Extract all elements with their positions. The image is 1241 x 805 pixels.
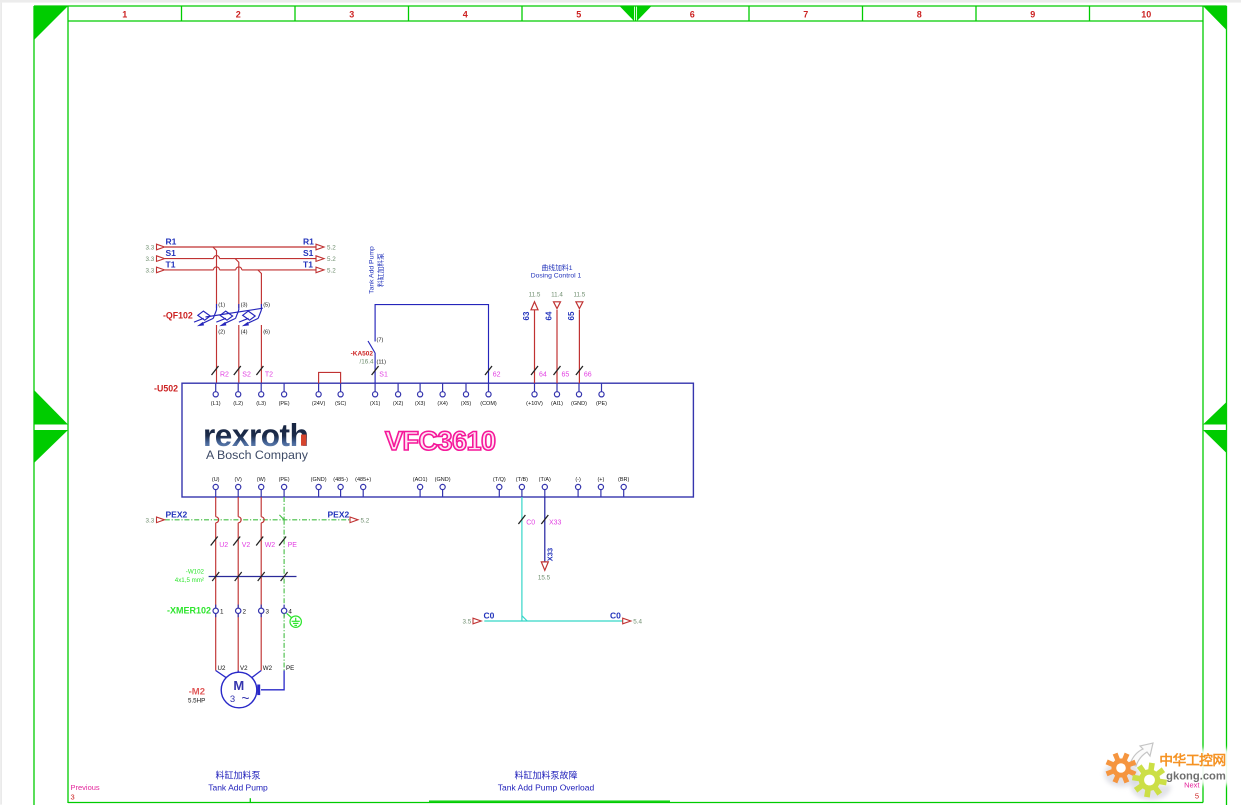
svg-text:(PE): (PE) xyxy=(279,401,290,407)
PE wire to motor (green) xyxy=(283,614,285,671)
svg-text:65: 65 xyxy=(567,311,576,320)
svg-text:W2: W2 xyxy=(263,665,273,672)
svg-text:S1: S1 xyxy=(166,248,177,258)
svg-text:S1: S1 xyxy=(303,248,314,258)
rexroth logo xyxy=(203,417,309,462)
svg-text:R1: R1 xyxy=(166,237,177,247)
svg-text:Dosing Control 1: Dosing Control 1 xyxy=(531,273,582,280)
svg-text:-U502: -U502 xyxy=(154,384,178,394)
svg-text:料缸加料泵: 料缸加料泵 xyxy=(215,770,260,781)
svg-text:(T/Q): (T/Q) xyxy=(493,477,506,483)
svg-text:10: 10 xyxy=(1141,9,1151,19)
svg-text:4: 4 xyxy=(288,609,292,616)
QF102 pole 1 contact xyxy=(194,304,217,326)
svg-text:(485-): (485-) xyxy=(333,477,348,483)
svg-text:(3): (3) xyxy=(241,303,248,309)
svg-text:62: 62 xyxy=(493,372,501,379)
interruption arrow 64 (to 11.4) xyxy=(554,302,561,309)
svg-text:2: 2 xyxy=(236,9,241,19)
wire tick 62 xyxy=(485,366,492,375)
svg-text:11.5: 11.5 xyxy=(529,291,541,298)
svg-text:(AO1): (AO1) xyxy=(413,477,428,483)
svg-text:U2: U2 xyxy=(219,542,228,549)
svg-text:Previous: Previous xyxy=(71,783,100,792)
svg-text:3.5: 3.5 xyxy=(463,619,472,626)
svg-text:Tank Add Pump Overload: Tank Add Pump Overload xyxy=(498,783,595,793)
junction R1 to vertical xyxy=(213,247,217,308)
svg-text:VFC3610: VFC3610 xyxy=(385,426,496,456)
phase name labels xyxy=(166,237,315,270)
svg-text:64: 64 xyxy=(539,372,547,379)
QF102 pin labels xyxy=(218,303,270,336)
svg-text:3: 3 xyxy=(71,793,75,802)
svg-text:5.5HP: 5.5HP xyxy=(188,698,205,705)
svg-text:(PE): (PE) xyxy=(279,477,290,483)
wire X33 from T/A xyxy=(544,497,546,562)
vertical label Tank Add Pump xyxy=(369,246,386,294)
svg-text:3.3: 3.3 xyxy=(146,256,155,263)
svg-text:(GND): (GND) xyxy=(311,477,327,483)
svg-text:(2): (2) xyxy=(218,330,225,336)
svg-text:3: 3 xyxy=(349,9,354,19)
wire T1 phase line xyxy=(165,267,316,270)
svg-text:8: 8 xyxy=(917,9,922,19)
wire tick C0 xyxy=(518,515,525,524)
svg-text:V2: V2 xyxy=(242,542,251,549)
svg-text:T2: T2 xyxy=(265,372,273,379)
svg-text:3: 3 xyxy=(230,694,235,705)
svg-text:PE: PE xyxy=(288,542,298,549)
svg-text:R2: R2 xyxy=(220,372,229,379)
wire tick S1 xyxy=(372,366,379,375)
svg-text:(L3): (L3) xyxy=(256,401,266,407)
QF102 pole 3 contact xyxy=(239,304,262,326)
cable -W102 xyxy=(209,576,297,578)
svg-text:PE: PE xyxy=(286,665,294,672)
motor wires U V W with hops over PEX2 xyxy=(216,497,265,671)
svg-text:(BR): (BR) xyxy=(618,477,629,483)
svg-text:11.4: 11.4 xyxy=(551,291,563,298)
gkong.com watermark logo xyxy=(1104,743,1236,801)
svg-text:(GND): (GND) xyxy=(571,401,587,407)
U502 top terminals xyxy=(213,383,604,397)
svg-text:C0: C0 xyxy=(610,611,621,621)
svg-text:7: 7 xyxy=(803,9,808,19)
svg-text:(SC): (SC) xyxy=(335,401,346,407)
svg-text:(COM): (COM) xyxy=(480,401,497,407)
svg-text:曲线加料1: 曲线加料1 xyxy=(542,263,573,272)
svg-text:(X2): (X2) xyxy=(393,401,404,407)
relay contact -KA502 and loop X1-COM xyxy=(368,305,489,384)
svg-text:-W102: -W102 xyxy=(186,569,205,576)
svg-text:S2: S2 xyxy=(242,372,251,379)
svg-text:Tank Add Pump: Tank Add Pump xyxy=(208,783,268,793)
svg-text:5.2: 5.2 xyxy=(327,245,336,252)
svg-text:(11): (11) xyxy=(377,359,387,365)
QF102 pole 2 contact xyxy=(216,304,239,326)
svg-text:(5): (5) xyxy=(263,303,270,309)
interruption arrow 65 (to 11.5) xyxy=(576,302,583,309)
svg-text:料缸加料泵: 料缸加料泵 xyxy=(376,253,385,287)
svg-text:(L1): (L1) xyxy=(211,401,221,407)
dest arrow R1 to 5.2 xyxy=(316,244,324,250)
svg-text:(GND): (GND) xyxy=(435,477,451,483)
U502 top terminal labels xyxy=(211,401,607,407)
U502 bottom terminal labels xyxy=(212,477,630,483)
svg-text:(T/A): (T/A) xyxy=(539,477,551,483)
interruption arrow 63 (from 11.5) xyxy=(531,302,583,383)
VFD drive -U502 box xyxy=(182,383,693,497)
ground symbol (PE earth) xyxy=(287,613,302,627)
svg-text:5.2: 5.2 xyxy=(361,517,370,524)
source arrow S1 from 3.3 xyxy=(157,256,165,262)
svg-text:(X3): (X3) xyxy=(415,401,426,407)
svg-text:(PE): (PE) xyxy=(596,401,607,407)
svg-text:(485+): (485+) xyxy=(355,477,371,483)
svg-text:V2: V2 xyxy=(240,665,248,672)
motor PE connector xyxy=(261,671,284,690)
svg-text:9: 9 xyxy=(1030,9,1035,19)
motor pin labels U2 V2 W2 PE xyxy=(218,665,295,672)
junction T1 to vertical xyxy=(258,270,262,308)
X33 tick xyxy=(541,515,548,524)
svg-text:(24V): (24V) xyxy=(312,401,326,407)
PEX2 arrows xyxy=(157,517,359,523)
svg-text:(+10V): (+10V) xyxy=(526,401,543,407)
svg-text:Next: Next xyxy=(1184,781,1200,790)
svg-text:PEX2: PEX2 xyxy=(166,509,188,519)
svg-text:3.3: 3.3 xyxy=(146,267,155,274)
U502 bottom terminals xyxy=(213,484,626,497)
svg-text:1: 1 xyxy=(220,609,224,616)
footer texts xyxy=(208,770,594,793)
svg-text:(T/B): (T/B) xyxy=(516,477,528,483)
svg-text:X33: X33 xyxy=(545,548,554,561)
wire ticks R2 S2 T2 xyxy=(212,366,264,375)
svg-text:(7): (7) xyxy=(377,338,384,344)
svg-text:A Bosch Company: A Bosch Company xyxy=(206,448,309,462)
svg-text:11.5: 11.5 xyxy=(574,291,586,298)
svg-text:65: 65 xyxy=(562,372,570,379)
svg-text:PEX2: PEX2 xyxy=(328,509,350,519)
C0 arrows and labels xyxy=(473,618,631,624)
motor M2 xyxy=(221,672,257,708)
dest arrow T1 to 5.2 xyxy=(316,267,324,273)
wire R1 phase line xyxy=(165,247,316,308)
motor lead-in wires xyxy=(216,671,284,690)
svg-text:(4): (4) xyxy=(241,330,248,336)
svg-text:U2: U2 xyxy=(218,665,226,672)
cross refs 11.5 11.4 11.5 xyxy=(529,291,586,298)
svg-text:T1: T1 xyxy=(166,259,176,269)
svg-text:15.5: 15.5 xyxy=(538,575,551,582)
svg-text:(6): (6) xyxy=(263,330,270,336)
junction S1 to vertical xyxy=(235,259,239,308)
svg-text:2: 2 xyxy=(243,609,247,616)
svg-text:(X5): (X5) xyxy=(461,401,472,407)
svg-text:5.2: 5.2 xyxy=(327,267,336,274)
QF102 linkage bar xyxy=(206,308,263,317)
svg-text:中华工控网: 中华工控网 xyxy=(1159,752,1225,768)
svg-text:/16.4: /16.4 xyxy=(359,358,374,365)
wire S1 phase line xyxy=(165,256,316,259)
svg-text:C0: C0 xyxy=(526,520,535,527)
svg-text:5.2: 5.2 xyxy=(327,256,336,263)
svg-text:4x1,5 mm²: 4x1,5 mm² xyxy=(175,577,204,584)
svg-text:(L2): (L2) xyxy=(233,401,243,407)
PE drop from U502 xyxy=(283,497,285,520)
svg-text:3.3: 3.3 xyxy=(146,517,155,524)
wires QF102 to U502 xyxy=(217,325,262,383)
svg-text:(AI1): (AI1) xyxy=(551,401,563,407)
svg-text:C0: C0 xyxy=(484,611,495,621)
svg-text:S1: S1 xyxy=(379,372,388,379)
svg-text:6: 6 xyxy=(690,9,695,19)
source arrow R1 from 3.3 xyxy=(157,244,325,273)
svg-text:64: 64 xyxy=(545,311,554,320)
svg-text:63: 63 xyxy=(522,311,531,320)
svg-text:W2: W2 xyxy=(265,542,276,549)
svg-text:X33: X33 xyxy=(549,520,562,527)
svg-text:-KA502: -KA502 xyxy=(351,351,374,358)
svg-text:5: 5 xyxy=(576,9,581,19)
svg-text:-QF102: -QF102 xyxy=(163,311,193,321)
wire ticks U2 V2 W2 PE xyxy=(211,537,286,546)
svg-text:5.4: 5.4 xyxy=(633,619,642,626)
svg-text:3.3: 3.3 xyxy=(146,245,155,252)
svg-text:(U): (U) xyxy=(212,477,220,483)
svg-text:1: 1 xyxy=(122,9,127,19)
svg-text:66: 66 xyxy=(584,372,592,379)
svg-text:-M2: -M2 xyxy=(189,687,205,698)
svg-text:3: 3 xyxy=(266,609,270,616)
source arrow T1 from 3.3 xyxy=(157,267,165,273)
svg-text:~: ~ xyxy=(241,690,249,706)
wire C0 from T/B (cyan) xyxy=(484,497,622,621)
PE junction diagonal xyxy=(279,515,284,520)
frame corner and edge markers xyxy=(34,6,1227,463)
svg-text:(+): (+) xyxy=(597,477,604,483)
cross reference texts xyxy=(146,245,337,275)
svg-text:(1): (1) xyxy=(218,303,225,309)
PE wire PEX2 line xyxy=(165,497,350,608)
wire ticks 64 65 66 xyxy=(531,366,583,375)
svg-text:(W): (W) xyxy=(257,477,266,483)
column numbers xyxy=(122,9,1151,19)
svg-text:5: 5 xyxy=(1195,792,1199,801)
svg-text:料缸加料泵故障: 料缸加料泵故障 xyxy=(514,770,577,781)
svg-text:(-): (-) xyxy=(575,477,581,483)
svg-text:R1: R1 xyxy=(303,237,314,247)
svg-text:4: 4 xyxy=(463,9,468,19)
X33 down arrow xyxy=(541,562,548,570)
svg-text:T1: T1 xyxy=(303,259,313,269)
jumper 24V-SC xyxy=(319,372,341,383)
svg-text:-XMER102: -XMER102 xyxy=(167,606,211,616)
svg-text:(X4): (X4) xyxy=(437,401,448,407)
svg-text:Tank Add Pump: Tank Add Pump xyxy=(369,246,376,294)
svg-text:(V): (V) xyxy=(235,477,243,483)
dest arrow S1 to 5.2 xyxy=(316,256,324,262)
svg-text:(X1): (X1) xyxy=(370,401,381,407)
